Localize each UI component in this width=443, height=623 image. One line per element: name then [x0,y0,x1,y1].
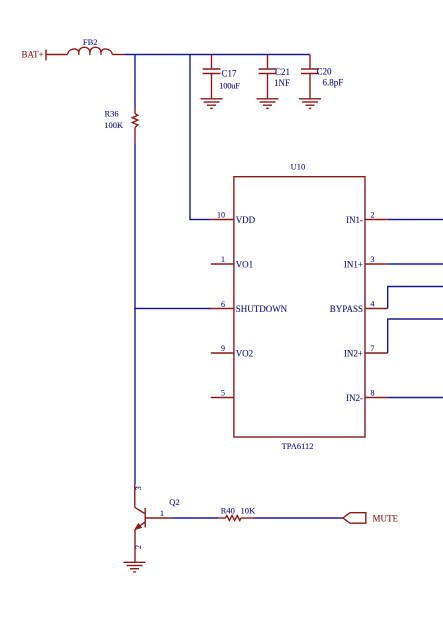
capacitor C17 [203,55,241,99]
port BAT+ [22,49,47,60]
capacitor C21 [259,55,291,99]
svg-text:1: 1 [221,255,225,264]
svg-text:6.8pF: 6.8pF [323,78,344,88]
pin 1 VO1 [211,255,253,270]
svg-text:VO1: VO1 [236,259,254,269]
wire IN2+ [388,319,443,353]
transistor Q2 [134,484,180,562]
svg-text:BAT+: BAT+ [22,49,44,59]
port MUTE [343,513,398,524]
svg-text:VO2: VO2 [236,348,254,358]
wire IN2- [388,397,443,399]
svg-text:5: 5 [221,388,225,397]
pin 3 IN1+ [344,255,388,270]
svg-text:TPA6112: TPA6112 [282,441,314,451]
svg-text:1: 1 [160,509,164,518]
svg-text:U10: U10 [291,162,306,172]
inductor FB2 [46,37,125,55]
wire Q2 base to R40 [172,517,218,519]
svg-text:C17: C17 [222,68,238,78]
svg-text:C21: C21 [275,67,290,77]
pin 7 IN2+ [344,344,388,359]
svg-text:10: 10 [217,210,225,219]
svg-text:IN1+: IN1+ [344,259,363,269]
svg-text:IN1-: IN1- [346,215,363,225]
wire rail to R36 [134,55,136,109]
svg-text:4: 4 [371,299,375,308]
svg-text:VDD: VDD [236,215,256,225]
ground under C21 [257,99,279,109]
svg-text:1NF: 1NF [274,78,290,88]
wire IN1+ [388,263,443,265]
svg-text:FB2: FB2 [83,37,98,47]
ground under C20 [299,99,321,109]
capacitor C20 [301,55,343,99]
svg-text:IN2-: IN2- [346,393,363,403]
wire SHUTDOWN [134,308,211,310]
svg-text:3: 3 [134,486,143,490]
svg-text:2: 2 [134,545,143,549]
svg-text:6: 6 [221,300,225,309]
wire rail to VDD [190,55,211,220]
svg-text:100K: 100K [104,120,124,130]
svg-text:IN2+: IN2+ [344,348,363,358]
ground under Q2 [124,562,146,572]
svg-text:8: 8 [371,388,375,397]
svg-text:SHUTDOWN: SHUTDOWN [236,304,288,314]
wire BYPASS [388,287,443,309]
pin 10 VDD [211,210,256,225]
wire R40 to MUTE [255,517,344,519]
pin 6 SHUTDOWN [211,300,288,314]
svg-text:R40: R40 [221,506,235,516]
ground under C17 [201,99,223,109]
svg-text:R36: R36 [105,109,119,119]
svg-text:10K: 10K [241,506,257,516]
svg-text:MUTE: MUTE [373,513,399,523]
pin 4 BYPASS [330,299,388,314]
op-amp U10 body [234,162,365,452]
pin 5 [211,388,234,397]
resistor R36 [104,109,138,144]
resistor R40 [218,506,256,521]
pin 2 IN1- [346,210,388,225]
svg-text:2: 2 [371,210,375,219]
pin 9 VO2 [211,344,253,359]
svg-text:BYPASS: BYPASS [330,304,363,314]
svg-text:9: 9 [221,344,225,353]
svg-text:100uF: 100uF [219,80,240,90]
wire main rail [125,54,310,56]
wire R36 down to Q2 collector [134,144,136,485]
svg-text:Q2: Q2 [169,497,179,507]
wire IN1- [388,219,443,221]
pin 8 IN2- [346,388,388,403]
svg-text:3: 3 [371,255,375,264]
svg-text:7: 7 [371,344,375,353]
svg-text:C20: C20 [317,67,333,77]
